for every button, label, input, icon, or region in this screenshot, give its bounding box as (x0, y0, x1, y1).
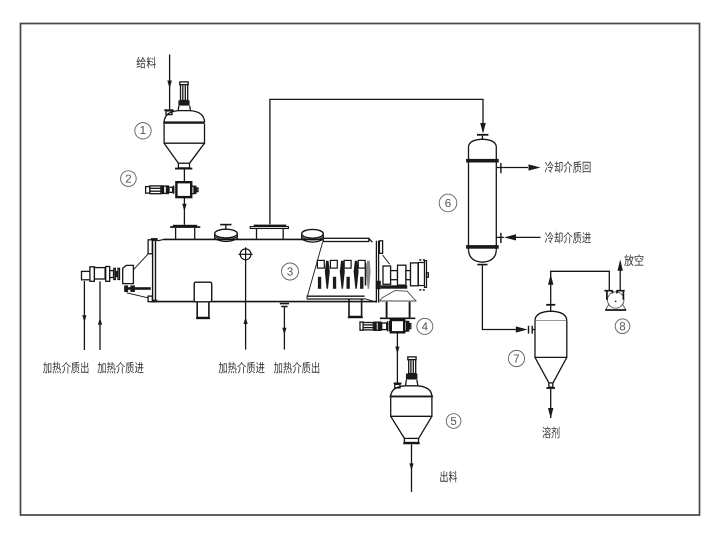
dryer D3 left top tab (148, 240, 152, 254)
discharge chute (387, 302, 410, 318)
dryer D3 right top flange (379, 241, 382, 254)
dryer D3 left bottom tab (148, 296, 152, 302)
callout circle 3 (282, 263, 299, 280)
dryer D3 shell bottom line (156, 301, 376, 303)
dryer D3 left cone lower line (127, 293, 149, 298)
wire solvent outlet (550, 389, 552, 418)
hopper H1 neck (178, 106, 191, 111)
valve V2 inlet flange bars (173, 186, 175, 194)
manhole MH1 stem (225, 225, 227, 230)
rotary valve V2 body (176, 182, 191, 197)
wire condenser to receiver (482, 266, 515, 330)
valve V4 inlet flange bars (387, 321, 389, 331)
valve V4 coupling black bands (373, 322, 376, 332)
paddle lower stubs (318, 277, 321, 289)
label 放空 (624, 254, 643, 266)
hopper H5 outlet flange (404, 438, 418, 442)
feed label 给料 (137, 57, 156, 69)
valve V2 shaft connector (169, 187, 173, 192)
vacuum pump P8 body circle (608, 292, 624, 308)
callout circle 1 (135, 123, 151, 139)
shaft stub left (110, 271, 114, 278)
vapor nozzle N2 neck (257, 229, 284, 239)
label 加热介质进 left (98, 362, 144, 374)
chute bottom flange line (380, 317, 415, 319)
right shaft stub b (406, 271, 411, 280)
feed nozzle N1 neck (176, 228, 195, 239)
cooling medium in arrow (504, 234, 516, 240)
valve V2 actuator striped cylinder (150, 186, 161, 194)
condenser C6 bottom flange (477, 264, 487, 266)
valve V2 actuator end cap (146, 187, 150, 194)
feed flow arrow (167, 81, 172, 89)
valve V4 shaft connector (382, 323, 387, 330)
callout circle 4 (417, 318, 433, 334)
vapor nozzle N2 flange (254, 225, 287, 227)
callout circle 6 (439, 194, 457, 212)
discharge hood trapezoid (380, 291, 417, 301)
motor M5 gearbox black band (406, 374, 418, 380)
dryer D3 left end cap black (151, 238, 158, 241)
hopper H5 cone (391, 416, 432, 438)
wire feed line (169, 55, 171, 110)
rotary joint J1 body (94, 268, 105, 279)
label 溶剂 (542, 427, 559, 439)
right shaft flange (383, 266, 391, 284)
hopper H5 neck (405, 380, 418, 386)
receiver R7 inlet flange ticks (528, 326, 530, 334)
thermowell crosshair symbol (240, 249, 251, 260)
heating medium in line left (99, 281, 101, 350)
condenser C6 inlet flange (477, 134, 488, 136)
condenser C6 upper side nozzle (496, 167, 504, 169)
hopper H1 cone (164, 143, 204, 163)
shaft seal black block (376, 281, 381, 289)
callout circle 2 (121, 171, 137, 187)
receiver R7 top nozzle (550, 306, 552, 312)
dryer D3 shell top line (164, 238, 324, 240)
hopper H5 weld band (390, 396, 434, 398)
motor M1 body (181, 85, 188, 101)
heating medium in line center (245, 260, 247, 350)
rotary joint J1 end box (82, 271, 91, 279)
heating medium out line center (283, 307, 285, 350)
right bearing block a (398, 265, 406, 285)
hopper H5 side nozzle (394, 382, 402, 384)
valve V4 actuator end cap (360, 322, 363, 330)
callout circle 7 (508, 350, 524, 366)
callout circle 8 (615, 319, 630, 334)
rotary joint J1 flange a (90, 267, 95, 282)
hopper H1 dome (164, 111, 205, 122)
feed nozzle N1 flange (173, 225, 197, 227)
hopper H1 weld band (163, 121, 205, 123)
dryer D3 right end plate (375, 241, 377, 303)
gland plates with black seal (114, 268, 116, 279)
hopper H1 body (164, 124, 204, 143)
hopper H5 dome (391, 386, 432, 396)
motor M5 body (409, 360, 416, 374)
wire valve2 to dryer (183, 198, 185, 225)
motor M1 top cap (180, 82, 188, 85)
right shaft stub a (391, 271, 398, 280)
stuffing box black bar (124, 287, 151, 290)
valve V2 coupling black band (161, 185, 164, 194)
flow arrow into receiver (516, 326, 528, 332)
flow arrow valve2 outlet (182, 204, 186, 212)
dryer D3 cutaway slant line (307, 242, 323, 298)
valve V4 right gland (405, 321, 407, 331)
heating medium out line left (83, 281, 85, 350)
label 冷却介质回 (545, 161, 591, 173)
receiver R7 dome (535, 311, 567, 320)
wire receiver vent line (551, 271, 610, 304)
pump P8 inlet flange bracket (604, 291, 613, 300)
bearing block B1 (123, 265, 134, 283)
dryer D3 left end plate (152, 238, 154, 302)
valve V4 actuator striped cylinder (363, 323, 373, 330)
vent flow arrow up (548, 274, 553, 285)
valve V2 right gland (192, 186, 194, 193)
wire hopper5 outlet (411, 444, 413, 492)
label 加热介质出 center (274, 362, 319, 374)
label 加热介质出 left (43, 362, 88, 374)
hopper H5 body (391, 397, 432, 416)
rotary valve V4 body (391, 320, 404, 332)
motor M1 gearbox black band (178, 100, 189, 105)
paddle top plates (317, 260, 324, 268)
pump P8 base (606, 304, 610, 310)
condenser C6 shell (469, 147, 497, 251)
hopper H1 side nozzle (164, 109, 173, 111)
pump P8 outlet vent pipe (619, 271, 621, 291)
receiver R7 bottom stem (549, 383, 553, 387)
callout circle 5 (446, 414, 461, 429)
label 加热介质进 center (219, 362, 265, 374)
paddle trough double line (307, 295, 365, 297)
receiver R7 cone (535, 357, 567, 383)
condenser C6 bottom tube sheet (466, 245, 499, 249)
wire vapor riser (270, 99, 483, 224)
coupling nub (427, 273, 429, 277)
paddle wedge blades (325, 261, 330, 289)
drive coupling bracket (418, 263, 424, 286)
dryer D3 left leg (197, 302, 209, 318)
dryer D3 right top thick edge (323, 238, 369, 241)
motor M5 top cap (408, 357, 416, 360)
drain nozzle T fitting (280, 303, 289, 305)
support black bar under shaft (381, 285, 407, 288)
dryer D3 left cone upper line (133, 254, 148, 270)
flow arrow into condenser (480, 123, 486, 134)
label 冷却介质进 (545, 232, 591, 244)
condenser C6 lower side nozzle (496, 236, 504, 238)
condenser C6 top dome (469, 139, 497, 146)
wire valve4 to hopper5 (396, 332, 398, 382)
manhole MH2 cover ellipses (302, 229, 324, 238)
dryer D3 right leg (349, 299, 362, 316)
condenser C6 bottom dome (469, 250, 497, 262)
condenser C6 top tube sheet (466, 159, 499, 163)
label 出料 (440, 471, 457, 483)
pump P8 outlet flange bracket (616, 291, 624, 300)
right bearing block b (411, 263, 419, 286)
rotary joint J1 flange b (106, 267, 110, 282)
hopper H1 outlet flange (178, 163, 189, 168)
wire hopper1 to valve2 (183, 170, 185, 182)
manhole MH1 cover ellipses (215, 229, 238, 238)
cooling medium return arrow (504, 167, 528, 169)
receiver R7 shell (535, 320, 567, 357)
dryer D3 left support bracket (194, 282, 212, 302)
